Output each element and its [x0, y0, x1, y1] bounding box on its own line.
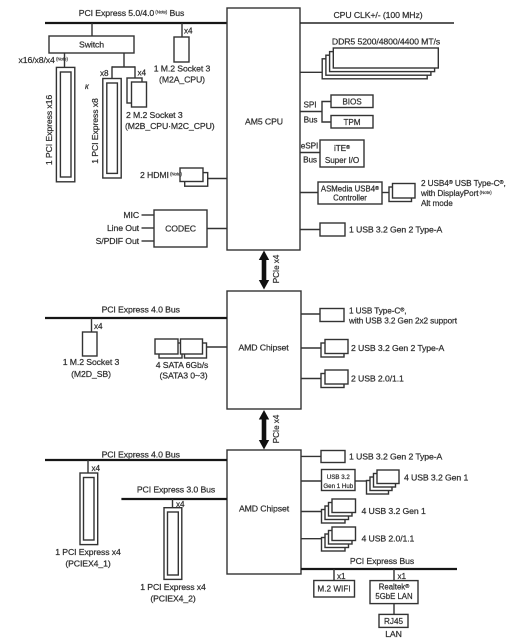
svg-text:Switch: Switch — [79, 40, 104, 50]
wire: PCIe 4.0 bus (bottom) — [45, 459, 227, 461]
wire: SATA to chipset — [207, 346, 228, 348]
link arrow: chipset to chipset PCIe x4 — [259, 410, 269, 450]
wire: CPU to DDR5 — [300, 71, 323, 73]
wire: hub to stack — [355, 480, 367, 482]
svg-text:S/PDIF Out: S/PDIF Out — [96, 236, 140, 246]
slot: PCIEX4_2 — [164, 508, 182, 580]
usb stack: 4 USB 2.0/1.1 — [322, 527, 356, 551]
wire: bus to PCIEX4_1 — [87, 460, 89, 473]
link arrow: CPU to chipset PCIe x4 — [259, 251, 269, 290]
svg-text:SPI: SPI — [304, 101, 317, 110]
wire: tee to x8 slot — [111, 66, 113, 78]
svg-text:PCI Express 5.0/4.0 (Note) Bus: PCI Express 5.0/4.0 (Note) Bus — [79, 8, 185, 18]
wire: chipset to 2 USB 3.2 Gen 2 — [301, 347, 321, 349]
svg-text:AMD Chipset: AMD Chipset — [239, 504, 290, 514]
chipset U3: AMD Chipset (lower) — [227, 450, 301, 574]
wifi: M.2 WIFI — [314, 581, 355, 598]
wire: SPI bracket — [322, 102, 331, 123]
wire: eSPI stem — [300, 152, 320, 154]
wire: chipset2 to 1 USB 3.2 Gen 2 Type-A — [301, 455, 321, 457]
svg-text:PCI Express 4.0 Bus: PCI Express 4.0 Bus — [102, 449, 181, 459]
svg-text:x1: x1 — [337, 572, 346, 581]
wire: bus to M.2 WIFI — [333, 569, 335, 582]
usb box: 1 USB 3.2 Gen 2 Type-A (CPU) — [320, 223, 345, 236]
svg-text:PCI Express 4.0 Bus: PCI Express 4.0 Bus — [102, 305, 181, 315]
svg-text:2 USB4® USB Type-C®,: 2 USB4® USB Type-C®, — [421, 179, 506, 188]
svg-text:1 USB 3.2 Gen 2 Type-A: 1 USB 3.2 Gen 2 Type-A — [349, 452, 443, 462]
svg-text:2 USB 3.2 Gen 2 Type-A: 2 USB 3.2 Gen 2 Type-A — [351, 343, 445, 353]
svg-text:with USB 3.2 Gen 2x2 support: with USB 3.2 Gen 2x2 support — [348, 316, 458, 325]
svg-text:AM5 CPU: AM5 CPU — [245, 117, 283, 127]
m.2 socket: M2D_SB — [83, 332, 98, 356]
switch: PCIe switch — [49, 36, 134, 53]
svg-text:Gen 1 Hub: Gen 1 Hub — [323, 483, 353, 490]
svg-text:Realtek®: Realtek® — [379, 583, 410, 592]
m.2 socket: M2A_CPU — [174, 37, 189, 62]
svg-text:(M2B_CPU·M2C_CPU): (M2B_CPU·M2C_CPU) — [125, 121, 215, 131]
codec — [154, 210, 207, 247]
wire: bus to switch — [91, 23, 93, 36]
svg-text:(M2D_SB): (M2D_SB) — [71, 369, 111, 379]
chipset U2: AMD Chipset (upper) — [227, 291, 301, 409]
svg-text:4 USB 2.0/1.1: 4 USB 2.0/1.1 — [362, 534, 415, 544]
controller: ASMedia USB4 — [318, 182, 382, 204]
svg-text:DDR5 5200/4800/4400 MT/s: DDR5 5200/4800/4400 MT/s — [332, 37, 441, 47]
wire: chipset to USB Type-C — [301, 313, 320, 315]
bios — [331, 95, 373, 108]
svg-text:1 M.2 Socket 3: 1 M.2 Socket 3 — [63, 357, 120, 367]
wire: CPU to ASMedia — [300, 192, 318, 194]
wire: switch to tee — [123, 53, 125, 67]
svg-text:1 PCI Express x4: 1 PCI Express x4 — [140, 582, 206, 592]
svg-text:CPU CLK+/- (100 MHz): CPU CLK+/- (100 MHz) — [334, 10, 423, 20]
wire: PCIe 3.0 bus — [121, 498, 227, 500]
wire: MIC stem — [142, 214, 155, 216]
wire: PCI Express bus — [301, 568, 457, 570]
usb stack: 4 USB 3.2 Gen 1 — [322, 499, 356, 523]
svg-text:AMD Chipset: AMD Chipset — [238, 343, 289, 353]
svg-text:LAN: LAN — [385, 629, 402, 639]
svg-text:BIOS: BIOS — [342, 98, 362, 107]
svg-text:5GbE LAN: 5GbE LAN — [375, 592, 412, 601]
m.2 stack: M2B_CPU / M2C_CPU — [127, 78, 147, 107]
wire: ASMedia to USB4 stack — [382, 192, 389, 194]
svg-text:x4: x4 — [184, 27, 193, 36]
wire: chipset2 to 4 USB 3.2 Gen 1 — [301, 511, 322, 513]
wire: Line Out stem — [142, 227, 155, 229]
svg-text:RJ45: RJ45 — [384, 617, 404, 626]
svg-text:4 SATA 6Gb/s: 4 SATA 6Gb/s — [156, 360, 209, 370]
wire: S/PDIF Out stem — [142, 240, 155, 242]
lan: Realtek 5GbE — [370, 581, 418, 604]
svg-text:CODEC: CODEC — [165, 224, 196, 234]
wire: bus to M2D — [91, 318, 93, 332]
wire: PCIe 4.0 bus (middle) — [45, 317, 227, 319]
svg-text:2 M.2 Socket 3: 2 M.2 Socket 3 — [126, 110, 183, 120]
sata stack — [155, 339, 207, 358]
svg-text:x1: x1 — [398, 572, 407, 581]
svg-text:4 USB 3.2 Gen 1: 4 USB 3.2 Gen 1 — [404, 472, 468, 482]
svg-text:1 M.2 Socket 3: 1 M.2 Socket 3 — [154, 64, 211, 74]
usb box: 1 USB 3.2 Gen 2 Type-A — [321, 451, 345, 463]
svg-text:x8: x8 — [100, 69, 109, 78]
svg-text:(M2A_CPU): (M2A_CPU) — [159, 75, 205, 85]
svg-text:2 USB 2.0/1.1: 2 USB 2.0/1.1 — [351, 374, 404, 384]
svg-text:USB 3.2: USB 3.2 — [327, 474, 351, 481]
svg-text:(SATA3 0~3): (SATA3 0~3) — [159, 371, 207, 381]
svg-text:PCIe x4: PCIe x4 — [272, 254, 281, 283]
cpu U1: AM5 CPU — [227, 8, 300, 250]
svg-text:TPM: TPM — [343, 118, 360, 127]
wire: chipset2 to 4 USB 2.0 — [301, 538, 322, 540]
slot: PCI Express x8 — [90, 79, 121, 179]
svg-text:Alt mode: Alt mode — [421, 199, 453, 208]
svg-text:MIC: MIC — [123, 210, 139, 220]
rj45 — [379, 614, 408, 627]
wire: CPU CLK line — [300, 22, 454, 24]
svg-text:4 USB 3.2 Gen 1: 4 USB 3.2 Gen 1 — [362, 506, 426, 516]
svg-text:x4: x4 — [138, 69, 147, 78]
wire: chipset to 2 USB 2.0 — [301, 378, 321, 380]
svg-text:Line Out: Line Out — [107, 223, 140, 233]
wire: Realtek to RJ45 — [393, 604, 395, 615]
wire: CPU to USB 3.2 Gen 2 Type-A — [300, 229, 320, 231]
usb stack: 2 USB 2.0/1.1 — [321, 370, 348, 388]
usb box: 1 USB Type-C — [320, 309, 344, 322]
wire: SPI bus stem — [300, 111, 322, 113]
svg-text:x4: x4 — [92, 464, 101, 473]
slot: PCI Express x16 — [44, 67, 75, 181]
svg-text:ASMedia USB4®: ASMedia USB4® — [321, 185, 379, 194]
svg-text:Controller: Controller — [333, 194, 367, 203]
svg-text:M.2 WIFI: M.2 WIFI — [317, 585, 350, 594]
ddr5 stack — [322, 48, 438, 79]
svg-text:1 USB Type-C®,: 1 USB Type-C®, — [349, 307, 406, 316]
svg-text:1 PCI Express x16: 1 PCI Express x16 — [44, 95, 54, 166]
svg-text:Bus: Bus — [304, 116, 318, 125]
svg-text:Super I/O: Super I/O — [325, 156, 359, 165]
svg-text:Bus: Bus — [303, 156, 317, 165]
slot: PCIEX4_1 — [80, 473, 98, 545]
wire: bus to M2A — [181, 23, 183, 37]
svg-text:PCIe x4: PCIe x4 — [272, 414, 281, 443]
wire: PCI Express 5.0/4.0 bus — [45, 22, 227, 24]
usb4 type-c stack — [389, 184, 415, 202]
svg-text:1 PCI Express x4: 1 PCI Express x4 — [55, 547, 121, 557]
wire: chipset2 to hub — [301, 480, 322, 482]
super io: iTE — [320, 140, 364, 167]
usb stack: 4 USB 3.2 Gen 1 (hub) — [367, 470, 400, 494]
svg-text:(PCIEX4_2): (PCIEX4_2) — [150, 594, 196, 604]
wire: bus to PCIEX4_2 — [172, 499, 174, 508]
tpm — [331, 116, 373, 129]
usb stack: 2 USB 3.2 Gen 2 Type-A — [321, 340, 348, 358]
wire: CODEC to CPU — [207, 228, 227, 230]
hdmi stack — [180, 168, 208, 186]
svg-text:1 USB 3.2 Gen 2 Type-A: 1 USB 3.2 Gen 2 Type-A — [349, 225, 443, 235]
svg-text:eSPI: eSPI — [301, 142, 318, 151]
wire: tee horizontal — [112, 66, 135, 68]
hub: USB 3.2 Gen 1 Hub — [322, 470, 356, 491]
svg-text:PCI Express 3.0 Bus: PCI Express 3.0 Bus — [137, 485, 216, 495]
wire: tee to M2B stack — [134, 66, 136, 78]
svg-text:x4: x4 — [94, 322, 103, 331]
wire: HDMI to CPU — [208, 178, 227, 180]
wire: bus to Realtek — [393, 569, 395, 581]
svg-text:(PCIEX4_1): (PCIEX4_1) — [65, 559, 111, 569]
wire: switch to x16 slot — [64, 53, 66, 67]
svg-text:PCI Express Bus: PCI Express Bus — [350, 556, 415, 566]
svg-text:1 PCI Express x8: 1 PCI Express x8 — [90, 98, 100, 164]
